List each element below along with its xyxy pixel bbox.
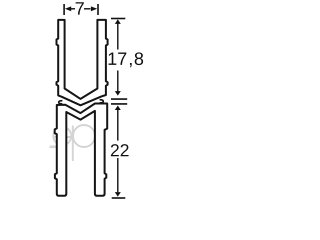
profile top piece	[57, 20, 108, 105]
left wing lip hook	[59, 101, 63, 104]
dimension 17,8 (right upper)	[111, 19, 127, 100]
dimension 7 (top)	[64, 4, 98, 15]
up arrow	[115, 106, 121, 111]
mid tick 1	[111, 98, 127, 100]
right tick	[97, 4, 99, 15]
down arrow	[115, 192, 121, 197]
watermark small text	[50, 146, 62, 149]
dimension text 17,8	[109, 52, 144, 67]
top tick	[111, 18, 125, 20]
profile bottom piece	[55, 104, 107, 196]
shaft below text	[117, 71, 119, 92]
dimension text 22	[111, 144, 129, 156]
shaft below text	[117, 158, 119, 192]
left tick	[63, 4, 65, 15]
left arrow	[71, 8, 75, 10]
dimension 22 (right lower)	[111, 104, 127, 198]
right wing lip hook	[100, 100, 104, 103]
down arrow	[115, 91, 121, 96]
right arrow	[84, 8, 91, 10]
dimension text 7	[76, 2, 84, 14]
bottom tick	[112, 197, 126, 199]
watermark ep logo	[53, 125, 95, 161]
up arrow	[115, 19, 121, 24]
mid tick 2	[111, 103, 127, 105]
